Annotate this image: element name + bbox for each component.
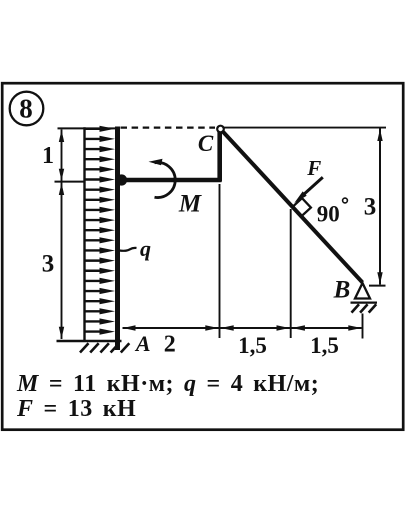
svg-text:3: 3: [364, 194, 377, 221]
svg-text:B: B: [333, 277, 351, 304]
svg-text:C: C: [198, 131, 214, 156]
svg-text:F: F: [306, 156, 321, 180]
svg-text:1,5: 1,5: [238, 333, 267, 358]
svg-text:8: 8: [19, 94, 33, 124]
svg-text:1,5: 1,5: [310, 333, 339, 358]
svg-text:q: q: [140, 236, 151, 261]
svg-text:1: 1: [42, 143, 54, 169]
svg-text:F = 13 кН: F = 13 кН: [16, 396, 136, 422]
svg-text:A: A: [134, 331, 151, 356]
svg-text:2: 2: [164, 332, 176, 358]
svg-text:M = 11 кН·м; q = 4 кН/м;: M = 11 кН·м; q = 4 кН/м;: [16, 371, 319, 397]
svg-text:90: 90: [317, 202, 340, 227]
svg-text:M: M: [178, 191, 202, 218]
svg-text:3: 3: [42, 251, 55, 278]
